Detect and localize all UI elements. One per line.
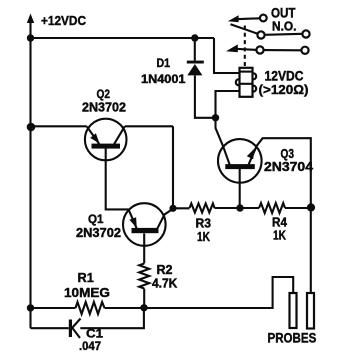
svg-text:OUT: OUT <box>271 6 296 21</box>
svg-text:2N3702: 2N3702 <box>76 226 121 240</box>
svg-text:Q1: Q1 <box>88 212 104 226</box>
svg-text:1K: 1K <box>197 230 210 244</box>
svg-text:Q2: Q2 <box>97 87 111 101</box>
svg-text:R2: R2 <box>157 263 173 277</box>
svg-text:4.7K: 4.7K <box>152 276 177 290</box>
svg-text:2N3702: 2N3702 <box>82 101 126 115</box>
svg-text:(>120Ω): (>120Ω) <box>259 82 309 97</box>
svg-text:1K: 1K <box>273 229 286 243</box>
svg-text:D1: D1 <box>157 56 171 70</box>
svg-text:R1: R1 <box>78 271 94 285</box>
svg-text:.047: .047 <box>79 339 101 353</box>
svg-text:+12VDC: +12VDC <box>41 13 87 28</box>
svg-text:PROBES: PROBES <box>268 331 317 346</box>
svg-text:1N4001: 1N4001 <box>141 72 186 86</box>
svg-text:R4: R4 <box>272 216 287 230</box>
svg-text:2N3704: 2N3704 <box>264 160 313 174</box>
svg-text:R3: R3 <box>196 217 212 231</box>
svg-text:N.O.: N.O. <box>272 20 297 34</box>
svg-text:10MEG: 10MEG <box>64 286 110 300</box>
